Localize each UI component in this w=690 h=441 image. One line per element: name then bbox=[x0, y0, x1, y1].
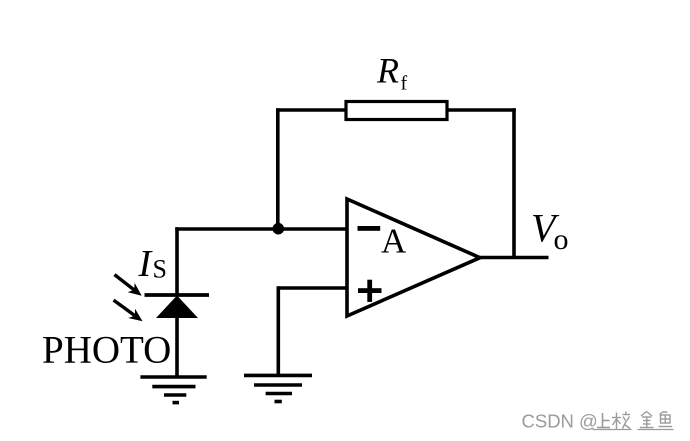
wire: inverting input horizontal (photodiode to op-amp) bbox=[175, 227, 347, 231]
op-amp U1 triangle bbox=[347, 199, 480, 316]
wire: feedback top horizontal right segment bbox=[447, 108, 516, 112]
light arrow 2 bbox=[114, 300, 143, 321]
CJK 金 bbox=[640, 412, 654, 428]
wire: feedback top horizontal left segment bbox=[276, 108, 346, 112]
svg-text:R: R bbox=[376, 51, 399, 91]
op-amp plus sign bbox=[358, 280, 382, 302]
wire: non-inverting input vertical to ground bbox=[276, 286, 280, 375]
wire: feedback left vertical bbox=[276, 108, 280, 229]
wire: feedback right vertical bbox=[512, 108, 516, 257]
svg-text:f: f bbox=[401, 73, 408, 95]
op-amp minus sign bbox=[358, 226, 381, 231]
watermark underline bbox=[593, 429, 674, 431]
watermark: CSDN @上校 金鱼 bbox=[522, 410, 674, 431]
CJK 鱼 bbox=[659, 412, 673, 427]
resistor Rf (box) bbox=[346, 102, 447, 120]
light arrow 1 bbox=[115, 275, 142, 296]
svg-text:CSDN @: CSDN @ bbox=[522, 410, 598, 431]
wire: output bbox=[478, 256, 549, 260]
photodiode D1: triangle bbox=[156, 296, 198, 319]
CJK 校 bbox=[612, 412, 630, 430]
svg-text:A: A bbox=[381, 222, 407, 261]
svg-text:I: I bbox=[138, 243, 154, 285]
photodiode D1: cathode bar bbox=[145, 293, 210, 297]
svg-text:o: o bbox=[554, 223, 569, 256]
wire: non-inverting input horizontal bbox=[278, 286, 347, 290]
wire: photodiode anode vertical (top) bbox=[175, 227, 179, 295]
wire: photodiode cathode vertical (bottom) bbox=[175, 315, 179, 377]
svg-text:S: S bbox=[153, 255, 167, 284]
node: junction dot at inverting input bbox=[273, 223, 285, 235]
svg-text:PHOTO: PHOTO bbox=[42, 329, 171, 372]
CJK 上 bbox=[597, 413, 610, 428]
ground G1 (photodiode) bbox=[140, 377, 206, 403]
ground G2 (op-amp + input) bbox=[244, 375, 312, 401]
